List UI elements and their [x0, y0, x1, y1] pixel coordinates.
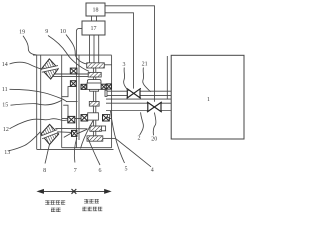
bearing XB8	[103, 115, 110, 121]
center shaft line a	[92, 68, 94, 136]
lower channel pipe line c	[64, 133, 72, 137]
wire from box18 to valve V1	[105, 13, 134, 89]
divider X	[72, 189, 77, 194]
bearing XB2	[70, 81, 76, 87]
bearing XB1	[70, 68, 77, 74]
pipe 1 lower line	[106, 94, 171, 96]
svg-text:18: 18	[93, 8, 99, 14]
bearing XB9	[72, 130, 77, 136]
svg-text:2: 2	[138, 136, 141, 142]
center shaft line b	[95, 68, 97, 136]
leader 19	[23, 36, 37, 55]
wire 17 b	[93, 35, 95, 63]
leader 20	[153, 113, 156, 136]
box 18	[86, 3, 105, 16]
housing bracket lower	[63, 105, 68, 116]
svg-text:10: 10	[60, 29, 66, 35]
hatched block H4	[87, 136, 103, 141]
svg-text:21: 21	[142, 62, 148, 68]
leader 3	[124, 68, 129, 91]
leader 11	[10, 89, 67, 101]
svg-text:1: 1	[207, 97, 210, 103]
inner funnel curve	[81, 113, 99, 149]
leader 2	[140, 112, 144, 135]
coupling hatched	[89, 102, 99, 107]
valve V2	[147, 102, 162, 112]
upper channel pipe line a	[54, 73, 93, 75]
leader 4	[116, 139, 151, 167]
wire between box18 and box17	[92, 16, 97, 21]
enclosure bottom line	[37, 148, 114, 150]
lower reactor block (rotated square)	[41, 124, 59, 144]
bearing XB4b	[106, 84, 111, 89]
lower row connector line	[62, 117, 112, 119]
pipe 1 upper line	[106, 90, 171, 92]
box 17	[82, 21, 105, 35]
svg-text:7: 7	[74, 168, 77, 174]
stator hatched block H1	[87, 63, 105, 68]
svg-text:14: 14	[2, 62, 8, 68]
lower channel pipe line b	[57, 131, 71, 134]
lower rotor block	[88, 113, 99, 120]
valve V1	[127, 88, 141, 98]
wire 17 a	[89, 35, 91, 63]
housing bracket upper	[62, 87, 71, 97]
pipe middle line	[106, 98, 171, 100]
pipe 2 upper line	[106, 102, 171, 104]
box 1 engine	[171, 55, 244, 139]
lower reactor channel	[41, 130, 58, 139]
lower channel pipe line a	[55, 127, 87, 129]
line from H1 to right wall	[104, 64, 111, 66]
enclosure left wall	[36, 55, 38, 149]
leader 8	[45, 145, 50, 164]
svg-text:12: 12	[3, 127, 9, 133]
leader 5	[111, 111, 125, 163]
leader 14	[10, 62, 42, 69]
left arrowhead	[38, 190, 44, 194]
svg-text:13: 13	[4, 150, 10, 156]
bearing XB6	[68, 116, 75, 123]
wire 17 c	[98, 35, 100, 63]
svg-text:15: 15	[2, 103, 8, 109]
svg-text:4: 4	[151, 168, 154, 174]
pipe 2 lower line	[106, 110, 171, 112]
bearing XB7	[81, 115, 88, 121]
vertical manifold line	[166, 56, 168, 99]
mechanism bottom line	[62, 147, 112, 149]
upper reactor channel	[41, 66, 58, 73]
svg-text:9: 9	[45, 29, 48, 35]
svg-text:20: 20	[151, 136, 157, 142]
leader 6	[88, 139, 100, 166]
label 18	[2, 8, 210, 175]
pipe end cap upper	[105, 90, 107, 96]
svg-text:8: 8	[43, 168, 46, 174]
mechanism right wall	[111, 55, 113, 147]
leader 7	[74, 138, 76, 163]
leader 9	[48, 36, 89, 72]
leader 21	[143, 68, 151, 92]
caption catalytic reaction part	[45, 199, 102, 212]
line from H4 to right	[103, 137, 116, 139]
hatched block H2	[88, 72, 101, 77]
leader 15	[11, 100, 63, 105]
lower channel pipe line d	[77, 129, 87, 134]
svg-text:11: 11	[2, 87, 8, 93]
upper channel pipe line b	[52, 75, 91, 77]
dimension arrow line	[38, 189, 111, 194]
leader 13	[9, 132, 41, 151]
mechanism inner left wall	[61, 55, 63, 147]
wire from box17 left going down into mechanism	[76, 28, 82, 147]
hatched block H3	[90, 126, 102, 131]
inner shaft line left	[78, 55, 80, 140]
caption dual rotor motor part	[84, 199, 99, 203]
enclosure top line	[33, 54, 112, 56]
enclosure inner left line	[40, 55, 42, 149]
stub line mid housing	[66, 101, 78, 103]
svg-text:5: 5	[125, 167, 128, 173]
svg-text:3: 3	[123, 62, 126, 68]
leader 12	[10, 119, 68, 129]
right arrowhead	[105, 190, 111, 194]
wire from box18 to valve V2	[105, 6, 155, 102]
pipe end cap lower	[108, 115, 110, 118]
bearing XB3	[81, 84, 86, 89]
leader 10	[66, 35, 87, 65]
bearing XB4a	[101, 84, 106, 89]
svg-text:19: 19	[19, 29, 25, 35]
svg-text:17: 17	[91, 26, 97, 32]
svg-text:6: 6	[99, 168, 102, 174]
upper rotor body	[87, 80, 101, 92]
small block right of H3	[101, 126, 105, 131]
upper reactor block (rotated square)	[41, 59, 58, 79]
